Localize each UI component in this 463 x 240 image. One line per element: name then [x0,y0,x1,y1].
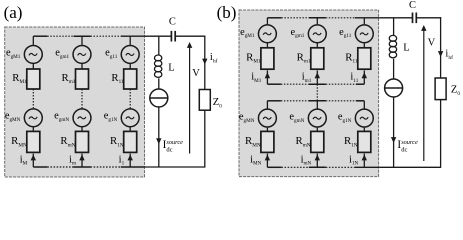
wire: source-resistor link col 3 row N (b) [363,128,365,132]
arrow i_hf (b) [438,51,443,57]
wire: source-resistor link col 1 row 1 (b) [266,43,268,48]
resistor R_MN (a) [27,131,40,152]
arrow I_dc source current (a) [156,138,161,144]
wire: source-resistor link col 2 row 1 (a) [81,64,83,69]
current arrow i_1 (a) [128,155,133,161]
resistor R_mN (b) [311,131,324,152]
wire: external bottom rail (a) [145,166,205,168]
wire: dashed continuation of bottom rail (a) [47,166,73,168]
AC source e_g11 (b) [355,25,373,43]
AC source e_gmN (a) [73,109,91,127]
wire: dotted continuation of row-1 bottom rail (b) [281,83,309,85]
svg-text:(b): (b) [217,3,237,22]
arrow I_dc source current (b) [391,137,396,143]
resistor R_1N (b) [358,131,371,152]
load impedance Z_0 (a) [199,90,210,111]
resistor R_1N (a) [124,131,137,152]
resistor R_MN (b) [261,131,274,152]
wire: load branch down (a) [204,36,206,90]
wire: source-resistor link col 2 row 1 (b) [316,43,318,48]
wire: load branch down (b) [440,17,442,78]
voltage arrow V line (b) [423,30,425,161]
wire: capacitor to load corner (b) [416,17,441,19]
wire: row-N top rail (b) [267,100,281,102]
svg-text:C: C [409,0,416,11]
AC source e_g11 (a) [121,45,139,63]
svg-text:Z0: Z0 [213,97,222,109]
wire: source-resistor link col 2 row N (b) [316,128,318,132]
current arrow i_1N (b) [362,155,367,161]
current arrow i_11 (b) [362,72,367,78]
arrowhead of V (b) [421,25,426,31]
wire: external bottom rail (b) [379,166,440,168]
wire: row-N stem col 1 (b) [266,101,268,109]
svg-text:dc: dc [401,147,407,154]
gray box: source matrix (b) [239,10,379,177]
wire: top stem col 2 (b) [316,18,318,25]
gray box: source matrix (a) [5,27,145,177]
resistor R_m1 (a) [76,69,89,89]
wire: top rail box to capacitor (b) [379,17,412,19]
wire: dotted continuation of row-N top rail (b) [281,100,309,102]
wire: capacitor to load corner (a) [175,35,205,37]
current arrow i_M1 (b) [265,72,270,78]
wire: row-1 bottom rail (b) [267,83,281,85]
inductor L (b) [389,35,396,57]
arrow i_hf (a) [202,59,207,65]
wire: resistor to row-1 bottom rail col 1 (b) [266,70,268,84]
AC source e_gm1 (a) [73,45,91,63]
inductor L (a) [154,55,161,77]
wire: resistor to bottom rail col 2 (b) [316,154,318,168]
capacitor C (b) [413,13,417,24]
svg-text:ihf: ihf [210,52,218,64]
resistor R_mN (a) [76,131,89,152]
wire: resistor to bottom rail col 3 (a) [129,154,131,167]
wire: source-resistor link col 1 row N (a) [32,127,34,131]
wire: inductor branch stem (b) [393,18,395,36]
svg-text:L: L [168,62,174,73]
svg-text:dc: dc [166,147,172,154]
AC source e_gMN (b) [258,109,276,127]
DC current source (a) [150,89,168,107]
wire: top stem col 1 (b) [266,18,268,25]
wire: dotted series link between row groups (b) [316,84,318,101]
wire: row-N stem col 2 (b) [316,101,318,109]
svg-text:source: source [401,139,418,146]
wire: dotted column continuation col 3 (a) [129,89,131,108]
voltage arrow V line (a) [189,47,191,154]
wire: DC source to bottom rail (b) [393,97,395,167]
wire: source-resistor link col 1 row 1 (a) [32,64,34,69]
resistor R_11 (a) [124,69,137,89]
AC source e_gM1 (a) [24,45,42,63]
wire: inductor to DC source (a) [158,78,160,89]
svg-text:Z0: Z0 [451,85,460,97]
wire: dotted continuation of top rail (a) [47,35,73,37]
AC source e_gm1 (b) [308,25,326,43]
AC source e_g1N (a) [121,109,139,127]
svg-text:(a): (a) [4,3,23,22]
svg-text:L: L [403,43,409,54]
current arrow i_m (a) [79,155,84,161]
wire: bottom rail (b) [267,166,281,168]
wire: top stem col 3 (a) [129,36,131,45]
wire: Z_0 to bottom rail (b) [440,100,442,168]
wire: resistor to bottom rail col 2 (a) [81,154,83,167]
wire: dotted continuation of top rail (b) [281,17,308,19]
wire: inductor to DC source (b) [393,59,395,79]
wire: resistor to bottom rail col 3 (b) [363,154,365,168]
capacitor C (a) [171,31,175,42]
svg-text:ihf: ihf [445,49,453,61]
wire: top rail (b) [267,17,281,19]
svg-text:source: source [166,139,183,146]
AC source e_gM1 (b) [258,25,276,43]
wire: source-resistor link col 3 row N (a) [129,127,131,131]
wire: top rail of matrix (a) [33,35,47,37]
wire: source-resistor link col 3 row 1 (b) [363,43,365,48]
current arrow i_m1 (b) [315,72,320,78]
svg-text:V: V [192,68,200,79]
arrowhead of V (a) [187,42,192,48]
wire: bottom rail of matrix (a) [33,166,47,168]
resistor R_M1 (a) [27,69,40,89]
wire: source-resistor link col 3 row 1 (a) [129,64,131,69]
svg-text:V: V [428,38,436,49]
wire: inductor branch stem (a) [158,36,160,55]
wire: dotted column continuation col 1 (a) [32,89,34,108]
current arrow i_M (a) [31,155,36,161]
AC source e_g1N (b) [355,109,373,127]
load impedance Z_0 (b) [435,78,446,100]
current arrow i_mN (b) [315,155,320,161]
wire: resistor to row-1 bottom rail col 3 (b) [363,70,365,84]
wire: top stem col 2 (a) [81,36,83,45]
AC source e_gmN (b) [308,109,326,127]
wire: top stem col 3 (b) [363,18,365,25]
resistor R_M1 (b) [261,48,274,69]
wire: dotted column continuation col 2 (a) [81,89,83,108]
DC current source (b) [385,79,403,97]
AC source e_gMN (a) [24,109,42,127]
wire: DC source to bottom rail (a) [158,107,160,167]
resistor R_11 (b) [358,48,371,69]
wire: top rail box to capacitor (a) [145,35,172,37]
wire: source-resistor link col 1 row N (b) [266,128,268,132]
wire: Z_0 to bottom rail (a) [204,110,206,167]
svg-text:C: C [169,17,176,28]
wire: top stem col 1 (a) [32,36,34,45]
resistor R_m1 (b) [311,48,324,69]
wire: dashed continuation of bottom rail (b) [281,166,308,168]
current arrow i_MN (b) [265,155,270,161]
wire: resistor to row-1 bottom rail col 2 (b) [316,70,318,84]
wire: row-N stem col 3 (b) [363,101,365,109]
wire: source-resistor link col 2 row N (a) [81,127,83,131]
wire: resistor to bottom rail col 1 (a) [32,154,34,167]
wire: resistor to bottom rail col 1 (b) [266,154,268,168]
